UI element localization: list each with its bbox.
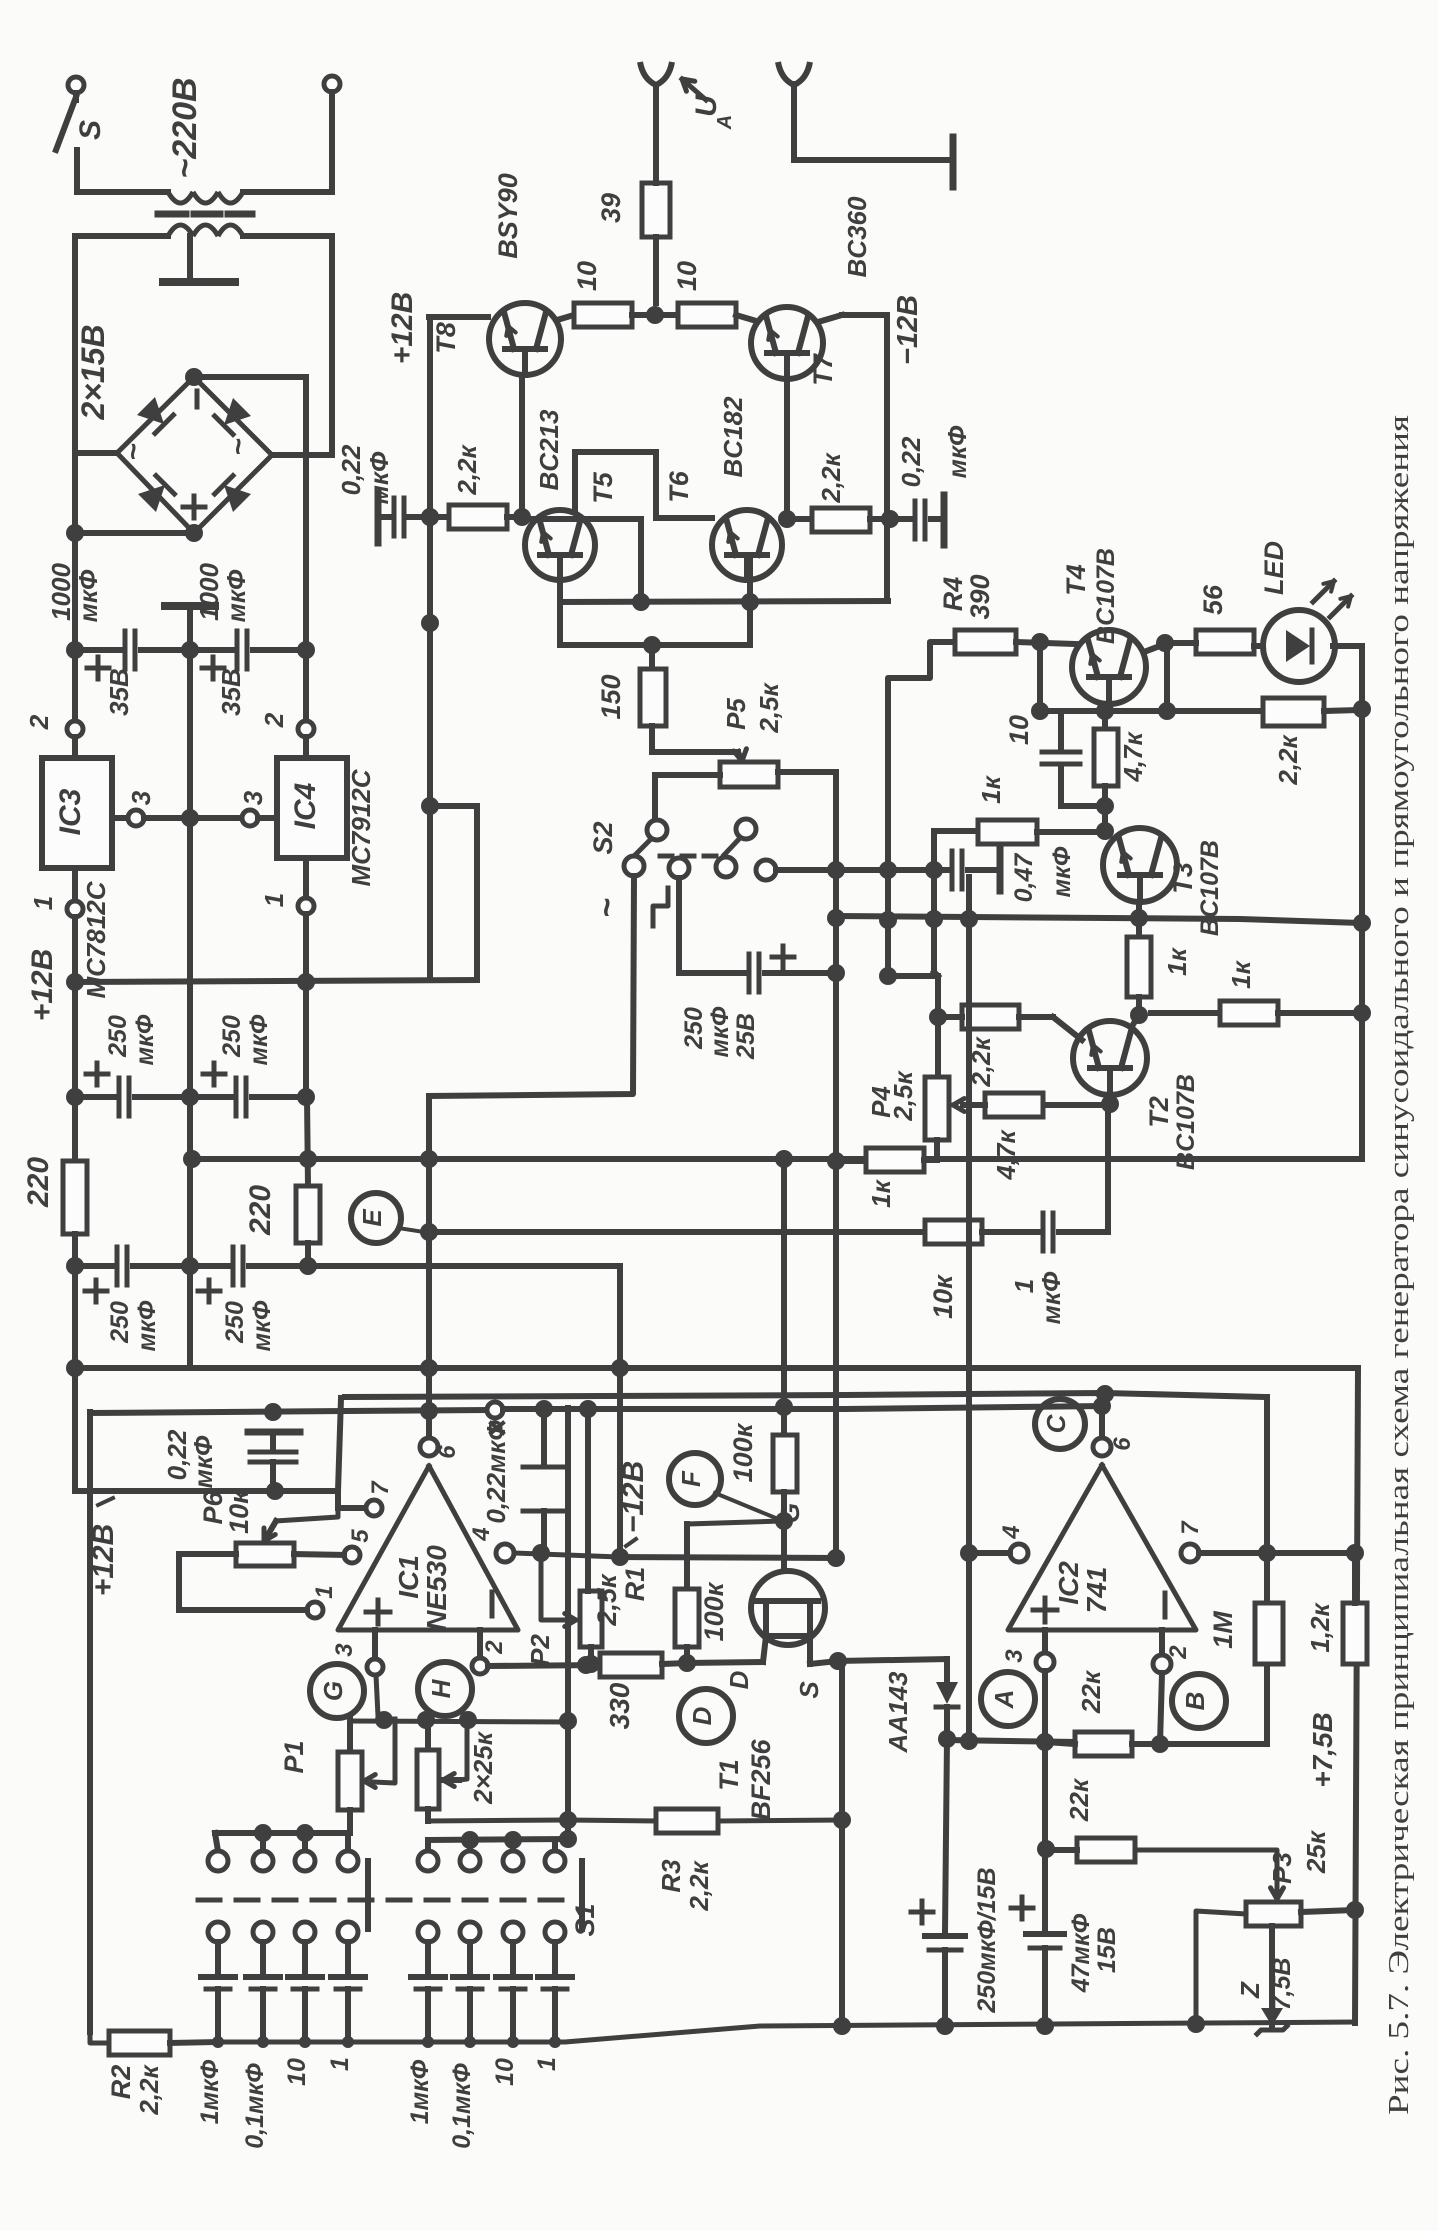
svg-text:1к: 1к — [1226, 959, 1256, 988]
svg-text:мкФ: мкФ — [248, 1300, 276, 1351]
svg-text:1к: 1к — [1162, 946, 1192, 975]
svg-text:1,2к: 1,2к — [1305, 1602, 1335, 1653]
svg-text:25В: 25В — [732, 1013, 760, 1060]
svg-text:250мкФ/15В: 250мкФ/15В — [973, 1867, 1001, 2013]
svg-text:4: 4 — [998, 1525, 1025, 1539]
svg-text:S: S — [74, 120, 107, 140]
svg-text:BC182: BC182 — [718, 396, 748, 477]
svg-text:56: 56 — [1198, 584, 1228, 615]
svg-text:1: 1 — [1009, 1279, 1039, 1293]
svg-text:22к: 22к — [1064, 1777, 1094, 1822]
svg-text:100к: 100к — [699, 1581, 729, 1641]
svg-text:250: 250 — [106, 1301, 134, 1344]
svg-text:Т5: Т5 — [588, 471, 618, 503]
svg-text:Т6: Т6 — [664, 470, 694, 502]
svg-text:IC2: IC2 — [1053, 1561, 1084, 1605]
svg-text:МС7912С: МС7912С — [346, 768, 376, 886]
svg-text:~220В: ~220В — [166, 77, 204, 178]
svg-text:35В: 35В — [216, 668, 246, 716]
svg-text:4,7к: 4,7к — [1118, 731, 1148, 783]
svg-text:2: 2 — [259, 712, 289, 728]
svg-text:P1: P1 — [279, 1740, 309, 1773]
svg-text:2,5к: 2,5к — [592, 1573, 622, 1627]
svg-text:мкФ: мкФ — [133, 1300, 161, 1351]
svg-text:25к: 25к — [1301, 1829, 1331, 1874]
svg-text:741: 741 — [1081, 1567, 1112, 1614]
svg-text:P5: P5 — [721, 698, 751, 730]
svg-text:10: 10 — [491, 2058, 519, 2086]
svg-text:P2: P2 — [525, 1634, 555, 1666]
svg-text:4: 4 — [468, 1527, 495, 1541]
svg-text:150: 150 — [596, 674, 626, 719]
svg-text:~: ~ — [117, 443, 150, 461]
svg-text:2×15В: 2×15В — [75, 324, 111, 420]
svg-text:2,2к: 2,2к — [1273, 734, 1303, 786]
svg-text:2,2к: 2,2к — [816, 452, 846, 504]
svg-text:1: 1 — [28, 896, 58, 910]
svg-text:BC213: BC213 — [534, 409, 564, 490]
svg-text:АА143: АА143 — [883, 1671, 913, 1753]
svg-text:Z: Z — [1235, 1981, 1265, 1999]
svg-text:NE530: NE530 — [421, 1545, 452, 1631]
svg-text:0,1мкФ: 0,1мкФ — [241, 2063, 269, 2149]
svg-text:250: 250 — [221, 1301, 249, 1344]
svg-text:E: E — [357, 1209, 387, 1227]
svg-text:250: 250 — [218, 1015, 246, 1058]
svg-text:2: 2 — [1165, 1645, 1192, 1660]
svg-text:15В: 15В — [1093, 1927, 1121, 1973]
svg-text:3: 3 — [331, 1643, 358, 1657]
svg-text:D: D — [687, 1706, 717, 1725]
svg-text:Т3: Т3 — [1168, 862, 1198, 894]
svg-text:R2: R2 — [106, 2065, 136, 2100]
svg-text:0,1мкФ: 0,1мкФ — [448, 2063, 476, 2149]
svg-text:S2: S2 — [588, 821, 618, 854]
svg-text:10: 10 — [283, 2058, 311, 2086]
svg-text:2,5к: 2,5к — [888, 1070, 918, 1122]
svg-text:IC1: IC1 — [393, 1555, 424, 1599]
svg-text:47мкФ: 47мкФ — [1067, 1913, 1095, 1993]
svg-text:мкФ: мкФ — [1048, 846, 1076, 897]
svg-text:1М: 1М — [1208, 1611, 1238, 1649]
svg-text:−12В: −12В — [617, 1461, 650, 1534]
svg-text:A: A — [989, 1690, 1019, 1710]
svg-text:мкФ: мкФ — [188, 1435, 218, 1488]
svg-text:0,22: 0,22 — [896, 436, 926, 487]
svg-text:100к: 100к — [728, 1422, 758, 1482]
svg-text:P3: P3 — [1267, 1852, 1297, 1884]
svg-text:2: 2 — [24, 714, 54, 730]
svg-text:10к: 10к — [224, 1489, 254, 1534]
svg-text:22к: 22к — [1076, 1669, 1106, 1714]
svg-text:A: A — [714, 115, 736, 130]
svg-text:мкФ: мкФ — [245, 1014, 273, 1065]
svg-text:1мкФ: 1мкФ — [406, 2059, 434, 2124]
svg-text:0,22: 0,22 — [336, 444, 366, 495]
svg-text:мкФ: мкФ — [364, 451, 394, 504]
svg-text:G: G — [318, 1681, 348, 1701]
svg-text:2,5к: 2,5к — [754, 682, 784, 734]
svg-text:H: H — [426, 1678, 456, 1698]
svg-text:390: 390 — [965, 574, 995, 619]
svg-text:R1: R1 — [620, 1567, 650, 1602]
svg-text:39: 39 — [596, 193, 626, 223]
svg-text:BF256: BF256 — [746, 1739, 776, 1821]
svg-text:6: 6 — [1109, 1437, 1136, 1451]
svg-text:мкФ: мкФ — [706, 1006, 734, 1057]
svg-text:0,22мкФ: 0,22мкФ — [481, 1420, 511, 1524]
svg-text:F: F — [676, 1470, 706, 1487]
svg-text:мкФ: мкФ — [1036, 1271, 1066, 1324]
svg-text:+12В: +12В — [386, 292, 419, 365]
svg-text:мкФ: мкФ — [73, 569, 103, 622]
svg-text:2×25к: 2×25к — [468, 1730, 498, 1805]
svg-text:35В: 35В — [104, 668, 134, 716]
svg-text:1мкФ: 1мкФ — [196, 2059, 224, 2124]
svg-text:R4: R4 — [938, 577, 968, 612]
svg-text:250: 250 — [680, 1007, 708, 1050]
svg-text:−12В: −12В — [892, 295, 924, 365]
svg-text:0,47: 0,47 — [1010, 853, 1038, 903]
svg-text:Т4: Т4 — [1061, 564, 1091, 596]
svg-text:2: 2 — [481, 1640, 508, 1655]
svg-text:2,2к: 2,2к — [684, 1860, 714, 1912]
svg-text:3: 3 — [126, 790, 156, 805]
svg-text:7: 7 — [367, 1480, 394, 1495]
svg-text:Т1: Т1 — [714, 1759, 744, 1791]
svg-text:3: 3 — [238, 790, 268, 805]
svg-text:мкФ: мкФ — [221, 569, 251, 622]
svg-text:+12В: +12В — [26, 949, 59, 1022]
svg-text:D: D — [724, 1670, 754, 1689]
svg-text:Т8: Т8 — [431, 322, 461, 354]
svg-text:1: 1 — [326, 2057, 354, 2071]
svg-text:C: C — [1041, 1413, 1071, 1433]
svg-text:3: 3 — [1001, 1649, 1028, 1663]
svg-text:S: S — [794, 1681, 824, 1699]
svg-text:+7,5В: +7,5В — [1307, 1712, 1338, 1788]
svg-text:1к: 1к — [866, 1178, 896, 1207]
svg-text:BC107В: BC107В — [1196, 840, 1224, 936]
svg-text:BSY90: BSY90 — [493, 173, 523, 259]
svg-text:R3: R3 — [656, 1859, 686, 1893]
svg-text:U: U — [690, 94, 723, 117]
svg-text:1: 1 — [259, 893, 289, 907]
svg-text:мкФ: мкФ — [131, 1014, 159, 1065]
svg-text:S1: S1 — [570, 1903, 600, 1936]
svg-text:1000: 1000 — [194, 563, 224, 621]
svg-text:B: B — [1180, 1692, 1210, 1711]
svg-text:1000: 1000 — [46, 563, 76, 621]
svg-text:1к: 1к — [976, 774, 1006, 803]
svg-text:мкФ: мкФ — [942, 425, 972, 478]
svg-text:6: 6 — [434, 1445, 461, 1459]
svg-text:10: 10 — [672, 261, 702, 291]
svg-text:IC4: IC4 — [289, 782, 322, 829]
svg-text:7: 7 — [1177, 1520, 1204, 1535]
svg-text:4,7к: 4,7к — [991, 1129, 1021, 1181]
svg-text:220: 220 — [22, 1157, 55, 1208]
svg-text:Т2: Т2 — [1144, 1096, 1174, 1128]
svg-text:220: 220 — [244, 1185, 277, 1236]
svg-text:10: 10 — [572, 261, 602, 291]
svg-text:2,2к: 2,2к — [134, 2064, 164, 2116]
svg-text:Т7: Т7 — [808, 352, 838, 385]
svg-text:BC107В: BC107В — [1172, 1074, 1200, 1170]
svg-text:BC360: BC360 — [842, 196, 872, 277]
svg-text:1: 1 — [533, 2057, 561, 2071]
svg-text:~: ~ — [222, 438, 255, 456]
svg-text:Рис. 5.7. Электрическая принци: Рис. 5.7. Электрическая принципиальная с… — [1384, 415, 1415, 2115]
svg-text:IC3: IC3 — [54, 788, 87, 835]
svg-text:10: 10 — [1004, 715, 1034, 745]
svg-text:5: 5 — [347, 1529, 374, 1543]
svg-text:330: 330 — [604, 1682, 635, 1729]
svg-text:10к: 10к — [928, 1274, 958, 1319]
svg-text:1: 1 — [311, 1585, 338, 1598]
svg-text:7,5В: 7,5В — [1268, 1958, 1296, 2011]
svg-text:~: ~ — [588, 898, 626, 918]
svg-text:LED: LED — [1259, 541, 1289, 595]
svg-text:250: 250 — [104, 1015, 132, 1058]
svg-text:2,2к: 2,2к — [452, 444, 482, 496]
svg-text:BC107В: BC107В — [1092, 548, 1120, 644]
